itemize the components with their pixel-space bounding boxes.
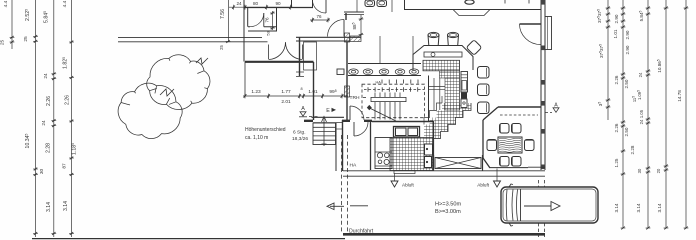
WC partition wall double	[248, 27, 277, 31]
car direction arrow	[524, 205, 551, 207]
svg-text:2.26: 2.26	[614, 75, 619, 84]
crossed box (terrace door)	[434, 155, 483, 171]
svg-text:1.05: 1.05	[639, 109, 644, 118]
svg-text:1.25: 1.25	[614, 158, 619, 167]
window sill protruding	[545, 17, 552, 50]
svg-text:4.4: 4.4	[3, 0, 9, 7]
dimension line right R3	[646, 0, 651, 229]
wall y37-41 double	[296, 37, 361, 41]
svg-text:1.77: 1.77	[281, 89, 291, 95]
wall x312 top	[312, 0, 314, 8]
dining table with grain	[498, 137, 522, 153]
WC partition vertical	[276, 8, 278, 32]
bar chairs	[478, 67, 490, 79]
stub line	[350, 205, 368, 207]
svg-text:24: 24	[639, 119, 644, 124]
right exterior wall	[541, 0, 545, 170]
appliance column	[461, 72, 468, 93]
svg-text:7.56: 7.56	[220, 9, 226, 19]
svg-text:53: 53	[267, 31, 271, 35]
wall x313 vertical	[313, 62, 315, 120]
hall bottom wall	[304, 120, 372, 122]
door D1 arc	[250, 13, 264, 27]
tree 1 (lower-left canopy)	[118, 83, 182, 138]
table edge ticks	[505, 0, 529, 4]
svg-text:18,3/26: 18,3/26	[292, 136, 308, 142]
hatched wall block right end	[350, 36, 361, 42]
svg-text:30: 30	[39, 169, 45, 175]
door D3 leaf	[343, 20, 345, 37]
svg-text:2.28: 2.28	[46, 143, 52, 153]
dimension line left A	[10, 0, 15, 49]
upper tread dashes	[382, 80, 418, 84]
tiled kitchen floor E	[390, 138, 433, 171]
dining walls	[498, 106, 541, 108]
wall top of WC room	[244, 7, 313, 9]
svg-text:2.26: 2.26	[46, 96, 52, 106]
svg-text:2.26: 2.26	[614, 123, 619, 132]
dimension line 7.56	[228, 0, 230, 42]
wall x300 vertical	[299, 37, 301, 76]
svg-text:8: 8	[300, 87, 302, 91]
svg-text:3.14: 3.14	[657, 203, 662, 212]
kitchen right wall	[433, 121, 435, 157]
svg-text:14.78: 14.78	[677, 90, 682, 102]
svg-text:24: 24	[236, 1, 242, 6]
pot 2	[448, 35, 459, 46]
svg-text:Höhenunterschied: Höhenunterschied	[245, 127, 286, 133]
island outline	[413, 46, 473, 71]
wardrobe rect	[304, 42, 317, 70]
window band lines	[348, 63, 421, 65]
svg-text:Abluft: Abluft	[477, 183, 489, 188]
dim 76 vertical	[270, 11, 275, 30]
svg-text:30: 30	[637, 168, 642, 173]
stair landing rect	[371, 97, 406, 101]
svg-text:2.90: 2.90	[625, 30, 630, 39]
durchfahrt dashed clearance right	[538, 180, 540, 237]
svg-text:4.4: 4.4	[62, 0, 68, 7]
svg-text:1.01: 1.01	[613, 29, 618, 38]
svg-text:E: E	[326, 108, 330, 114]
svg-text:20: 20	[656, 168, 661, 173]
dimension line right R2	[621, 0, 626, 229]
dim 88.5 vertical	[359, 15, 364, 36]
svg-text:87: 87	[62, 163, 68, 169]
door D5 arc	[520, 24, 541, 45]
durchfahrt dashed clearance left	[341, 135, 343, 234]
entrance wall thick	[245, 61, 314, 63]
svg-text:H>=3.50m: H>=3.50m	[435, 202, 461, 208]
tiled counter band A	[423, 60, 460, 71]
tick 25 near building	[226, 40, 231, 43]
direction arrow left	[330, 205, 344, 207]
abluft triangle 1	[391, 181, 398, 187]
kitchen counter left	[375, 138, 392, 169]
svg-text:HA: HA	[350, 163, 358, 169]
terrace edge double line	[343, 171, 545, 176]
svg-text:2.28: 2.28	[630, 145, 635, 154]
svg-text:76: 76	[265, 17, 270, 23]
svg-text:1.01: 1.01	[308, 89, 318, 95]
svg-text:TRH: TRH	[350, 95, 361, 101]
dimension line right R4	[664, 0, 669, 229]
svg-text:6 Stg.: 6 Stg.	[293, 130, 306, 136]
door D3 arc	[328, 20, 345, 37]
stove	[375, 152, 392, 166]
abluft triangle 2	[494, 181, 501, 187]
top dimension chain	[229, 5, 293, 10]
table ellipse	[465, 0, 474, 4]
dimension chain y96	[243, 94, 348, 99]
wall right of stairs	[336, 120, 343, 171]
car windshield	[506, 190, 517, 221]
tree inner squiggle	[160, 89, 174, 96]
wall mullion blocks	[541, 0, 546, 5]
stair diagonal	[370, 108, 397, 121]
rotated chair	[466, 40, 482, 56]
car mirrors	[509, 184, 513, 226]
svg-text:24: 24	[41, 120, 47, 126]
abluft leader 2	[496, 169, 498, 181]
svg-text:80: 80	[253, 1, 259, 6]
porch edge line	[244, 62, 246, 97]
pillar block hall	[337, 69, 344, 75]
exterior stairs	[313, 123, 336, 145]
dining chairs	[500, 124, 510, 134]
door D7 arc (into HA)	[353, 122, 355, 136]
svg-text:76: 76	[316, 14, 322, 19]
svg-text:24: 24	[43, 73, 49, 79]
threshold	[394, 171, 415, 174]
HA room walls	[370, 122, 372, 170]
car body	[501, 187, 598, 223]
durchfahrt ground thick line	[343, 233, 545, 236]
svg-text:1.23: 1.23	[251, 89, 261, 95]
svg-text:Abluft: Abluft	[402, 183, 414, 188]
tiled counter band C vertical	[445, 78, 460, 110]
terrace verticals	[357, 0, 392, 64]
svg-text:2.26: 2.26	[65, 95, 71, 105]
svg-text:2.90: 2.90	[614, 14, 619, 23]
wall x291 top	[291, 0, 293, 8]
svg-text:3.14: 3.14	[636, 203, 641, 212]
corridor strip lines	[433, 78, 435, 110]
door D2 arc top	[325, 0, 327, 13]
svg-text:3.14: 3.14	[614, 203, 619, 212]
svg-text:B>=3.00m: B>=3.00m	[435, 209, 461, 215]
dim 76 horizontal	[310, 18, 330, 23]
svg-text:2.01: 2.01	[281, 99, 291, 105]
double entrance door arcs	[269, 42, 286, 59]
two stools top-left	[365, 0, 375, 7]
dimension line left C	[51, 0, 56, 237]
svg-text:ca. 1,10 m: ca. 1,10 m	[245, 135, 268, 141]
living table edge	[405, 0, 542, 10]
bottom-right room wall	[528, 167, 545, 171]
svg-text:2.50: 2.50	[624, 127, 629, 136]
svg-text:3.14: 3.14	[46, 202, 52, 212]
door leaves	[268, 45, 270, 60]
island shelf	[424, 52, 462, 57]
terrace wall top	[344, 12, 364, 15]
svg-text:375375: 375375	[597, 9, 602, 23]
kitchen sink unit	[394, 127, 420, 138]
dashed lintel	[500, 114, 538, 116]
svg-text:10.345: 10.345	[25, 133, 31, 148]
svg-text:25: 25	[23, 36, 29, 42]
door D5 leaf	[520, 23, 542, 25]
wall left of building double	[243, 0, 245, 62]
dashed stair outline	[362, 84, 425, 118]
svg-text:10.865: 10.865	[657, 59, 662, 73]
svg-text:2.50: 2.50	[624, 79, 629, 88]
svg-text:25: 25	[0, 40, 6, 46]
stair arrow	[323, 118, 325, 146]
dimension line left D	[69, 0, 74, 237]
kitchen top wall	[372, 121, 433, 123]
abluft leader 1	[394, 174, 396, 181]
stair start diamond	[367, 105, 372, 110]
svg-text:375375: 375375	[599, 44, 604, 58]
flower pots on sill	[349, 69, 419, 75]
table trapezoid notch	[453, 10, 490, 16]
svg-text:2.90: 2.90	[625, 45, 630, 54]
solid tread verticals	[375, 93, 400, 120]
fridge blocks	[425, 144, 433, 155]
boundary line bottom	[32, 238, 345, 240]
pot 1	[428, 35, 439, 46]
svg-text:A: A	[301, 106, 305, 112]
svg-text:25: 25	[219, 45, 224, 50]
dimension line right R5	[684, 0, 689, 229]
svg-text:24: 24	[638, 72, 643, 77]
wall x347 segments with hatch	[345, 13, 347, 20]
dashed tread line with ticks	[364, 89, 424, 91]
TRH right wall	[428, 76, 430, 122]
dimension line right R1	[606, 0, 611, 120]
tiled counter band B	[440, 71, 460, 78]
tiled stepped band	[442, 103, 471, 111]
sill step left	[296, 72, 304, 77]
door D6 arc (into hall)	[349, 106, 351, 120]
svg-text:90: 90	[275, 1, 281, 6]
svg-text:3.14: 3.14	[63, 201, 69, 211]
dimension line left B	[33, 0, 38, 237]
tree 2 (upper-right canopy)	[147, 55, 210, 110]
garden wall double line	[118, 38, 268, 42]
